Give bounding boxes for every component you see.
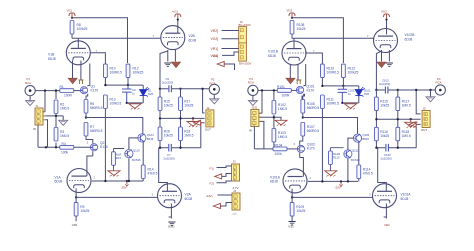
- wire R1 to Q1 gate: [74, 90, 80, 92]
- svg-text:10k25: 10k25: [164, 134, 173, 138]
- node input y91 x56: [55, 89, 57, 91]
- svg-text:560R0.5: 560R0.5: [90, 106, 103, 110]
- output jack P4: [435, 77, 445, 95]
- node grid rail x105: [104, 180, 106, 182]
- svg-text:IN: IN: [249, 128, 252, 132]
- svg-text:B546: B546: [147, 137, 154, 141]
- node mid rail x398: [397, 118, 399, 120]
- svg-text:100k25: 100k25: [133, 71, 144, 75]
- net stub F1 at J3: [210, 166, 232, 170]
- chassis ground at R102 node: [275, 120, 287, 126]
- net arrow VA1 near J6: [213, 54, 235, 70]
- svg-text:VG2: VG2: [381, 10, 387, 14]
- wire Q3 emitter to rail: [128, 158, 130, 181]
- svg-text:10k25: 10k25: [184, 104, 193, 108]
- svg-text:100k: 100k: [275, 152, 283, 156]
- wire VG2 rail to R108 and right corner: [292, 18, 343, 63]
- wire J1 bottom drop: [37, 125, 39, 148]
- svg-text:100R: 100R: [282, 93, 291, 97]
- input jack P3: [248, 77, 258, 96]
- wire V2A plate from C7 row: [159, 148, 168, 192]
- capacitor C3: [122, 85, 136, 103]
- wire R4 to Q2 gate: [74, 146, 90, 148]
- connector J4 power: [232, 189, 240, 211]
- node mid rail x193: [192, 117, 194, 119]
- svg-text:100k0.5: 100k0.5: [110, 102, 122, 106]
- power -25V drop right: [335, 181, 343, 189]
- transistor Q104 BC546: [353, 133, 369, 142]
- node -25V: [126, 180, 128, 182]
- svg-text:R113: R113: [333, 156, 340, 160]
- resistor R9: [74, 197, 89, 221]
- node -25V right: [340, 180, 342, 182]
- svg-text:1M0.5: 1M0.5: [60, 107, 69, 111]
- svg-text:BV+150V: BV+150V: [239, 61, 251, 65]
- ground (filled) under V1B heater: [68, 78, 77, 84]
- node C3 bottom: [126, 102, 128, 104]
- wire R103 bottom to R104 row: [254, 140, 274, 149]
- wire R102 line: [273, 90, 275, 128]
- svg-text:R4: R4: [62, 142, 66, 146]
- wire R7 to Q2 drain: [86, 136, 93, 143]
- power VG1 (left, over R8): [67, 9, 76, 18]
- resistor R2: [54, 100, 69, 114]
- svg-text:100k: 100k: [61, 151, 69, 155]
- wire output row y147.7: [160, 123, 205, 148]
- wire R3 bottom to R4 row: [38, 143, 60, 148]
- resistor R104: [273, 143, 287, 156]
- chassis ground under P3: [248, 96, 257, 106]
- wire input P1 to R1: [36, 90, 60, 92]
- earth glyph under V101B heater: [296, 80, 301, 84]
- wire V102A plate from C103 row: [378, 148, 387, 192]
- wire R13 down to V1A grid rail: [104, 109, 106, 182]
- svg-text:J101: J101: [251, 106, 258, 110]
- ground (filled) under V101B heater: [286, 78, 295, 84]
- capacitor C101: [338, 86, 355, 103]
- svg-text:VR1: VR1: [72, 223, 78, 227]
- resistor R110: [321, 64, 340, 78]
- resistor R4: [60, 142, 74, 155]
- svg-text:2u2(250): 2u2(250): [379, 82, 390, 86]
- chassis ground under P1: [26, 96, 35, 106]
- node input x262: [261, 89, 263, 91]
- svg-text:6V8: 6V8: [148, 92, 153, 96]
- wire R14 to rail: [142, 179, 144, 182]
- net stub VR1 at J6: [211, 47, 239, 51]
- wire J101 bottom drop: [253, 127, 255, 149]
- wire R108 node y38 to V102B grid: [292, 33, 374, 38]
- svg-text:VG1: VG1: [67, 9, 73, 13]
- resistor R111: [321, 95, 340, 109]
- earth ground under V2A: [168, 222, 175, 229]
- transistor Q101 (2SK170): [296, 84, 315, 93]
- zener D101 6V8: [342, 86, 371, 103]
- wire P1 drop to J1 pin1: [44, 91, 46, 112]
- svg-text:6DJ8: 6DJ8: [270, 180, 278, 184]
- node C102 left: [375, 89, 377, 91]
- resistor R3: [54, 128, 69, 142]
- svg-text:IN: IN: [33, 127, 36, 131]
- transistor Q1 (2SK170): [80, 85, 98, 94]
- wire mid rail right y119.2: [376, 111, 420, 128]
- net stub -24V at J4: [206, 194, 233, 198]
- svg-text:B546: B546: [362, 137, 369, 141]
- connector J101: [249, 106, 261, 133]
- wire P3 drop to J101 pin1: [260, 90, 263, 113]
- wire R114 to rail: [358, 179, 360, 182]
- wire R104 to Q102 gate: [287, 148, 297, 150]
- svg-text:VG1]: VG1]: [211, 54, 219, 58]
- wire R101 to Q101 gate: [291, 89, 296, 91]
- svg-text:J3: J3: [233, 159, 236, 163]
- svg-text:R13: R13: [116, 156, 122, 160]
- wire P2 drop to J2 pin1: [203, 89, 205, 113]
- earth ground under R109: [288, 222, 295, 229]
- wire V101B grid to R110: [305, 53, 322, 64]
- svg-text:K170: K170: [100, 145, 108, 149]
- node R4 row x46: [45, 146, 47, 148]
- earth glyph under V1B heater: [79, 80, 84, 84]
- svg-text:6DJ8: 6DJ8: [268, 54, 276, 58]
- node output row x160: [159, 147, 161, 149]
- net arrow OUT at J2: [194, 120, 201, 125]
- resistor R17: [179, 89, 194, 111]
- node C102 right: [397, 89, 399, 91]
- svg-text:6V8: 6V8: [364, 92, 369, 96]
- wire Q104 emitter to R114: [358, 142, 360, 165]
- net stub VG2 at J6: [211, 37, 239, 41]
- svg-text:-25V: -25V: [121, 185, 127, 189]
- wire V102B plate lead: [386, 19, 388, 35]
- node V1A cathode: [75, 196, 77, 198]
- node C101 bottom: [341, 102, 343, 104]
- svg-text:10k25: 10k25: [164, 104, 173, 108]
- wire V1A grid rail y181: [92, 180, 143, 182]
- svg-text:RCA: RCA: [25, 81, 31, 85]
- triode V2B: [153, 26, 197, 50]
- wire V1A cathode down: [75, 188, 77, 197]
- resistor R6: [84, 100, 103, 114]
- wire R10/R12 bottoms to node row y85: [105, 78, 128, 86]
- triode V1A: [55, 169, 96, 193]
- svg-text:OUT: OUT: [421, 128, 427, 132]
- net arrow at J3 pin2: [215, 174, 232, 179]
- svg-text:47k0.5: 47k0.5: [363, 172, 373, 176]
- ground (open) under NLR: [108, 171, 120, 177]
- net stub VG1 at J6: [211, 52, 239, 58]
- resistor R13b (NLR3): [112, 149, 125, 171]
- svg-text:VR2]: VR2]: [211, 29, 219, 33]
- wire V2A cathode down: [169, 204, 172, 219]
- svg-text:1M0.5: 1M0.5: [278, 107, 287, 111]
- triode V101B: [268, 41, 315, 65]
- wire V1B heater leads: [73, 61, 81, 80]
- wire Q103 collector to Q104 base: [348, 138, 353, 149]
- transistor Q103 BC546: [344, 149, 360, 163]
- svg-text:-25V: -25V: [335, 186, 341, 190]
- ground (hatched) under C3/D1: [129, 103, 141, 110]
- wire V101B rim to Q101 drain: [304, 64, 306, 86]
- resistor R118: [396, 127, 411, 141]
- wire Q1 source to R6: [86, 94, 88, 99]
- wire R111 down to V101A grid rail: [321, 109, 323, 182]
- resistor R1: [60, 85, 74, 98]
- wire V102A cathode down: [384, 204, 387, 219]
- wire V1B rim to Q1 drain: [88, 64, 90, 87]
- resistor R113 (NLR2): [329, 148, 344, 171]
- wire P4 drop to J5 pin1: [416, 90, 420, 114]
- chassis ground at R2/R3 node: [59, 120, 68, 125]
- wire VG1 rail to R8 and right corner: [72, 18, 128, 63]
- node VG2 V102B: [385, 18, 387, 20]
- svg-text:560R0.5: 560R0.5: [90, 129, 103, 133]
- chassis ground under P2: [210, 95, 219, 104]
- svg-text:6DJ8: 6DJ8: [55, 180, 63, 184]
- ground (hatched) under C101/D101: [345, 103, 357, 110]
- wire R107 to Q102 drain: [300, 136, 303, 145]
- wire V101A grid rail: [308, 180, 358, 182]
- node R112 y85.9: [342, 85, 344, 87]
- node VG1 left: [71, 17, 73, 19]
- wire Q103 emitter to rail: [347, 159, 349, 182]
- svg-text:VR2: VR2: [384, 223, 390, 227]
- wire J1 pin3 drop: [46, 120, 48, 148]
- wire V101B heater leads: [290, 65, 298, 80]
- wire J101 pin3 drop: [260, 121, 264, 148]
- wire C102 node to P4: [398, 89, 435, 91]
- node mid rail x376: [375, 118, 377, 120]
- svg-text:1M0.5: 1M0.5: [402, 134, 411, 138]
- wire J101 pin2 node: [260, 117, 282, 120]
- wire R2 line: [55, 91, 57, 127]
- svg-text:6DJ8: 6DJ8: [401, 197, 409, 201]
- wire V102B cathode to C102 column: [376, 51, 381, 90]
- node rail x129: [128, 180, 130, 182]
- node mid rail x180.5: [179, 117, 181, 119]
- earth glyph under V2B heater: [164, 63, 171, 66]
- node VG1 V2B: [177, 18, 179, 20]
- wire J1 pin2 to R2/R3 node: [46, 116, 64, 120]
- resistor R107: [301, 123, 320, 137]
- svg-text:R1: R1: [60, 85, 64, 89]
- svg-text:6DJ8: 6DJ8: [185, 197, 193, 201]
- wire Q3 collector to Q4 base: [129, 138, 138, 149]
- wire R8 bottom node y38 to V2B grid: [72, 33, 160, 38]
- wire V1B plate lead: [77, 38, 79, 48]
- wire V2B cathode to C5 column: [160, 51, 168, 89]
- svg-text:1M0.5: 1M0.5: [402, 104, 411, 108]
- resistor R15: [158, 89, 173, 111]
- node C5 left x159.5: [159, 88, 161, 90]
- wire output row right y147.7: [376, 124, 420, 147]
- node mid rail x410.7: [410, 118, 412, 120]
- node R12 y85: [127, 84, 129, 86]
- resistor R16: [158, 127, 173, 141]
- svg-text:VG2]: VG2]: [211, 37, 219, 41]
- transistor Q2 (2SK170): [87, 141, 108, 151]
- svg-text:RCA: RCA: [436, 81, 442, 85]
- svg-text:VG2: VG2: [287, 9, 293, 13]
- svg-text:100R0.5: 100R0.5: [327, 102, 340, 106]
- wire V2B plate lead: [177, 19, 179, 34]
- power -25V drop: [121, 181, 129, 189]
- zener D1 6V8: [127, 85, 154, 103]
- svg-text:K170: K170: [91, 89, 99, 93]
- node VG2 right: [291, 17, 293, 19]
- net stub F2 at J3: [210, 181, 232, 186]
- svg-text:1M0.5: 1M0.5: [278, 135, 287, 139]
- node R106/R107: [302, 116, 304, 118]
- svg-text:J4: J4: [233, 189, 236, 193]
- capacitor C103: [381, 144, 392, 161]
- svg-text:J5: J5: [423, 107, 426, 111]
- resistor R115: [375, 90, 390, 111]
- node R6/R7: [85, 116, 87, 118]
- resistor R102: [272, 101, 287, 115]
- svg-text:F1]: F1]: [210, 166, 214, 170]
- svg-text:R101: R101: [277, 85, 285, 89]
- wire C5 node to P2: [181, 88, 209, 90]
- node mid rail x160: [159, 117, 161, 119]
- svg-text:OUT: OUT: [205, 128, 211, 132]
- power VG1 (over V2B plate): [172, 10, 181, 19]
- node R2/R3: [55, 115, 57, 117]
- svg-text:100R0.5: 100R0.5: [110, 71, 123, 75]
- svg-text:100R0.5: 100R0.5: [327, 71, 340, 75]
- wire Q4 emitter to R14: [142, 142, 144, 165]
- resistor R12: [126, 64, 143, 78]
- resistor R18: [179, 127, 194, 141]
- triode V2A: [152, 184, 193, 208]
- node R4 row x56: [55, 146, 57, 148]
- net arrow at J4 pin2: [213, 203, 232, 209]
- node P2 drop: [201, 88, 203, 90]
- chassis ground at P4 wire: [426, 90, 435, 102]
- triode V1B: [48, 41, 98, 65]
- svg-text:RCA: RCA: [210, 81, 216, 85]
- node R104 row: [273, 148, 275, 150]
- svg-text:10k25: 10k25: [296, 209, 305, 213]
- svg-text:1M0.5: 1M0.5: [184, 134, 193, 138]
- resistor R112: [342, 64, 359, 78]
- capacitor C5: [160, 77, 181, 92]
- transistor Q3 BC546: [125, 149, 141, 163]
- node rail x348: [347, 180, 349, 182]
- ground (filled) under V2B heater: [171, 62, 180, 68]
- svg-text:10k25: 10k25: [80, 209, 89, 213]
- triode V102A: [369, 184, 411, 208]
- svg-text:BC546: BC546: [132, 158, 141, 162]
- svg-text:VR1]: VR1]: [211, 47, 219, 51]
- svg-text:2u2(250): 2u2(250): [381, 156, 392, 160]
- svg-text:6DJ8: 6DJ8: [405, 37, 413, 41]
- resistor R13: [104, 95, 122, 109]
- wire input P3 to R101: [258, 89, 277, 91]
- connector J5: [421, 107, 430, 133]
- svg-text:2u2(250): 2u2(250): [164, 156, 175, 160]
- wire R110/R112 bottoms to node row y85.9: [322, 78, 343, 86]
- resistor R103: [272, 129, 287, 143]
- resistor R10: [104, 64, 123, 78]
- node input y91 x44: [44, 89, 46, 91]
- svg-text:1n: 1n: [348, 92, 352, 96]
- net stub VR2 at J6: [211, 29, 239, 33]
- svg-text:6DJ8: 6DJ8: [189, 38, 197, 42]
- node V101A cathode: [291, 196, 293, 198]
- node output row x180.5: [179, 147, 181, 149]
- svg-text:1n: 1n: [132, 92, 136, 96]
- capacitor C102: [376, 79, 397, 94]
- svg-text:2u2(250): 2u2(250): [162, 81, 173, 85]
- wire Q2 source to V1A plate: [87, 151, 93, 176]
- svg-text:100R: 100R: [64, 94, 73, 98]
- svg-text:R104: R104: [275, 143, 283, 147]
- svg-text:BV+150V: BV+150V: [239, 23, 251, 27]
- wire V102B heater leads: [382, 50, 390, 62]
- transistor Q102 (2SK170): [294, 142, 316, 152]
- svg-text:J1: J1: [36, 104, 39, 108]
- svg-text:K170: K170: [307, 88, 315, 92]
- node input x273.9: [273, 89, 275, 91]
- power VG2 (right, over R108): [287, 9, 296, 18]
- wire Q101 source to R106: [302, 94, 304, 99]
- connector J3 heater: [232, 159, 240, 181]
- node R110 y85.9: [321, 85, 323, 87]
- svg-text:47k0.5: 47k0.5: [148, 172, 158, 176]
- node grid rail x322: [321, 180, 323, 182]
- wire V1A cathode to V2A grid: [76, 196, 157, 198]
- svg-text:560R0.5: 560R0.5: [307, 129, 320, 133]
- transistor Q4 BC546: [138, 133, 154, 142]
- resistor R7: [84, 123, 103, 137]
- resistor R109: [290, 197, 305, 221]
- svg-text:VS1: VS1: [288, 224, 294, 228]
- node output row x397.8: [397, 147, 399, 149]
- svg-text:F2]: F2]: [210, 182, 214, 186]
- svg-text:560R0.5: 560R0.5: [307, 106, 320, 110]
- resistor R106: [301, 94, 320, 113]
- resistor R8: [70, 21, 87, 35]
- wire R6 bottom / node row y118 to Q4: [86, 113, 143, 134]
- svg-text:10k25: 10k25: [297, 27, 306, 31]
- node R10 y85: [104, 84, 106, 86]
- power VG2 (over V102B plate): [381, 10, 390, 19]
- svg-text:1M0.5: 1M0.5: [60, 134, 69, 138]
- resistor R14: [141, 165, 157, 179]
- node R102/R103: [273, 116, 275, 118]
- wire V101A cathode to V102A grid: [292, 196, 372, 198]
- node output row x376.4: [375, 147, 377, 149]
- node C5 right x180.5: [179, 88, 181, 90]
- earth glyph under V102B heater: [386, 63, 393, 66]
- svg-text:GND: GND: [168, 225, 174, 229]
- resistor R101: [277, 85, 291, 98]
- wire V2B heater leads: [168, 50, 176, 62]
- output jack P2: [209, 78, 219, 95]
- connector J2: [205, 106, 214, 132]
- svg-text:100k25: 100k25: [348, 71, 359, 75]
- resistor R117: [396, 90, 411, 111]
- resistor R116: [375, 127, 390, 141]
- svg-text:K170: K170: [307, 147, 315, 151]
- node chassis stem P4: [429, 89, 431, 91]
- wire V1B grid to R10: [90, 53, 105, 64]
- svg-text:100k25: 100k25: [77, 27, 88, 31]
- ground (hatched) on right mid rail: [405, 119, 417, 128]
- svg-text:10k25: 10k25: [380, 134, 389, 138]
- svg-text:-24V]: -24V]: [206, 194, 213, 198]
